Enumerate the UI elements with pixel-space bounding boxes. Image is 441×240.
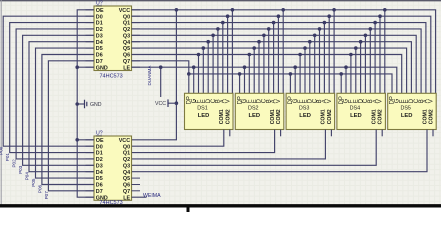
- wire U2 LE (digit latch enable): [132, 196, 147, 198]
- wire segment bus Q3 (to DS5): [132, 35, 417, 93]
- wire DS4 pin3 to bus: [350, 55, 352, 94]
- junction DS3 pin6: [313, 34, 317, 38]
- svg-text:V: V: [327, 99, 333, 103]
- svg-text:Q5: Q5: [123, 176, 130, 182]
- wire DS2 pin5 to bus: [258, 42, 260, 94]
- junction VCC tap: [175, 101, 179, 105]
- wire segment bus Q0 (to DS5): [132, 16, 431, 93]
- junction DS3 DP: [289, 72, 293, 76]
- wire DS1 pin3 to bus: [198, 55, 200, 94]
- svg-text:V: V: [276, 99, 282, 103]
- wire D6 data bus (U1 D6 to U2 D6): [42, 55, 94, 185]
- junction DS1 pin7: [216, 27, 220, 31]
- svg-text:GND: GND: [90, 102, 102, 108]
- DS5 second COM stub: [432, 130, 434, 137]
- wire DS3 pin8 to bus: [323, 23, 325, 94]
- ground symbol bar: [85, 100, 87, 109]
- wire U1 GND stub: [77, 66, 94, 68]
- display DS1 segment pin names: [187, 96, 232, 104]
- svg-text:COM1: COM1: [270, 109, 276, 124]
- junction DS2 pin9: [277, 14, 281, 18]
- wire DS1 pin10 to bus: [231, 10, 233, 94]
- junction DS1 pin6: [211, 34, 215, 38]
- junction GND tap: [75, 102, 79, 106]
- junction DS4 pin3: [349, 53, 353, 57]
- wire VCC symbol stub: [168, 102, 176, 104]
- wire segment bus Q2 (to DS5): [132, 29, 422, 93]
- junction DS2 pin10: [281, 8, 285, 12]
- svg-text:74HC573: 74HC573: [100, 74, 123, 80]
- wire DS3 DP pin: [289, 74, 291, 93]
- svg-text:D7: D7: [96, 189, 103, 195]
- svg-text:COM1: COM1: [422, 109, 428, 124]
- svg-text:Q3: Q3: [123, 163, 130, 169]
- svg-text:COM2: COM2: [276, 109, 282, 124]
- latch U1 pin names: [96, 8, 131, 71]
- wire DS3 pin3 to bus: [299, 55, 301, 94]
- display DS4 segment pin names: [339, 96, 384, 104]
- wire DS1 pin8 to bus: [222, 23, 224, 94]
- wire DS2 pin3 to bus: [248, 55, 250, 94]
- junction DS3 G: [293, 65, 297, 69]
- junction DS4 G: [344, 65, 348, 69]
- junction DS4 pin6: [364, 34, 368, 38]
- svg-text:OE: OE: [96, 8, 104, 14]
- wire D0 data bus (U1 D0 to U2 D0): [3, 16, 94, 146]
- svg-text:D4: D4: [96, 40, 103, 46]
- display DS5 body: [388, 93, 437, 129]
- svg-text:V: V: [378, 99, 384, 103]
- junction DS2 pin3: [248, 53, 252, 57]
- junction DS4 pin9: [378, 14, 382, 18]
- svg-text:D2: D2: [96, 27, 103, 33]
- wire GND symbol stub: [77, 103, 84, 105]
- DS4 second COM stub: [381, 130, 383, 137]
- wire DS3 pin6 to bus: [314, 35, 316, 93]
- svg-text:COM1: COM1: [372, 109, 378, 124]
- svg-text:DS5: DS5: [400, 105, 411, 111]
- wire U2 OE stub: [77, 139, 94, 141]
- svg-text:D2: D2: [96, 157, 103, 163]
- svg-text:VCC: VCC: [155, 101, 166, 107]
- wire DS3 pin9 to bus: [328, 16, 330, 93]
- svg-text:P05: P05: [31, 178, 36, 187]
- junction DS1 G: [192, 65, 196, 69]
- svg-text:Q0: Q0: [123, 144, 130, 150]
- svg-text:COM1: COM1: [219, 109, 225, 124]
- latch U1 body: [94, 6, 132, 71]
- wire segment bus Q7 / DP line: [132, 61, 393, 94]
- svg-text:OE: OE: [96, 138, 104, 144]
- svg-text:LED: LED: [401, 113, 413, 119]
- display DS1 body: [185, 93, 234, 129]
- svg-text:D5: D5: [96, 176, 103, 182]
- junction DP DS1: [187, 72, 191, 76]
- junction DS2 pin6: [262, 34, 266, 38]
- svg-text:D5: D5: [96, 46, 103, 52]
- wire LE net (DUANMA) to displays: [132, 67, 397, 93]
- svg-text:Q1: Q1: [123, 21, 130, 27]
- wire VCC branch (to U2 VCC): [132, 10, 177, 140]
- svg-text:D4: D4: [96, 170, 103, 176]
- svg-text:LED: LED: [248, 113, 260, 119]
- display DS2 body: [235, 93, 283, 129]
- svg-text:DS1: DS1: [197, 105, 208, 111]
- wire VCC rail (to DS5): [132, 10, 436, 94]
- window divider tick: [187, 205, 190, 213]
- wire segment bus Q4 (to DS5): [132, 42, 412, 94]
- svg-text:Q2: Q2: [123, 157, 130, 163]
- svg-text:COM2: COM2: [378, 109, 384, 124]
- wire DS2 pin7 to bus: [268, 29, 270, 93]
- wire DS2 pin G to LE line: [244, 67, 246, 93]
- svg-text:P07: P07: [44, 191, 49, 200]
- latch U2 OE overline: [96, 135, 102, 137]
- svg-text:P06: P06: [37, 184, 42, 193]
- svg-text:V: V: [429, 99, 435, 103]
- wire DS3 COM to U2 Q2: [132, 130, 326, 159]
- wire DS1 COM to U2 Q0: [132, 130, 224, 147]
- svg-text:D6: D6: [96, 183, 103, 189]
- wire DS4 pin5 to bus: [360, 42, 362, 94]
- wire DS4 pin8 to bus: [374, 23, 376, 94]
- wire DS1 DP pin: [188, 74, 190, 93]
- svg-text:COM2: COM2: [327, 109, 333, 124]
- wire D4 data bus (U1 D4 to U2 D4): [29, 42, 94, 172]
- svg-text:COM2: COM2: [429, 109, 435, 124]
- junction DS2 G: [243, 65, 247, 69]
- junction DS2 pin8: [272, 21, 276, 25]
- junction DS2 pin7: [267, 27, 271, 31]
- svg-text:P03: P03: [18, 165, 23, 174]
- wire DS4 pin7 to bus: [369, 29, 371, 93]
- svg-text:VCC: VCC: [119, 138, 130, 144]
- svg-text:Q1: Q1: [123, 151, 130, 157]
- wire DS4 DP pin: [340, 74, 342, 93]
- wire D5 data bus (U1 D5 to U2 D5): [36, 48, 95, 178]
- wire DS3 pin10 to bus: [333, 10, 335, 94]
- svg-text:D1: D1: [96, 151, 103, 157]
- wire DS4 COM to U2 Q3: [132, 130, 377, 166]
- junction DS1 pin8: [221, 21, 225, 25]
- wire DS3 pin4 to bus: [304, 48, 306, 93]
- wire DS2 pin10 to bus: [282, 10, 284, 94]
- svg-text:LED: LED: [299, 113, 311, 119]
- junction VCC branch: [175, 8, 179, 12]
- svg-text:V: V: [225, 99, 231, 103]
- svg-text:LE: LE: [123, 195, 130, 201]
- svg-text:P00: P00: [0, 146, 4, 155]
- junction DS4 pin10: [383, 8, 387, 12]
- DS2 second COM stub: [280, 130, 282, 137]
- display DS5 segment pin names: [390, 96, 435, 104]
- svg-text:WEIMA: WEIMA: [143, 193, 161, 199]
- junction DS3 pin10: [332, 8, 336, 12]
- wire DS4 pin G to LE line: [345, 67, 347, 93]
- svg-text:D3: D3: [96, 33, 103, 39]
- junction DS1 pin10: [231, 8, 235, 12]
- svg-text:LE: LE: [123, 65, 130, 71]
- junction DS2 DP: [238, 72, 242, 76]
- wire DUANMA label branch: [160, 67, 162, 97]
- latch U2 pin stubs: [86, 140, 141, 197]
- svg-text:DS4: DS4: [350, 105, 361, 111]
- junction DS1 pin5: [206, 40, 210, 44]
- window edge background: [0, 207, 441, 212]
- svg-text:Q6: Q6: [123, 183, 130, 189]
- latch U1 OE overline: [96, 5, 102, 7]
- svg-text:D3: D3: [96, 163, 103, 169]
- wire D7 data bus (U1 D7 to U2 D7): [48, 61, 94, 191]
- DS3 second COM stub: [330, 130, 332, 137]
- wire DS4 pin4 to bus: [355, 48, 357, 93]
- svg-text:D1: D1: [96, 21, 103, 27]
- junction DS4 pin5: [359, 40, 363, 44]
- svg-text:D6: D6: [96, 53, 103, 59]
- junction U1 GND tie: [75, 65, 79, 69]
- wire segment bus Q5 (to DS5): [132, 48, 407, 93]
- junction DS3 pin8: [323, 21, 327, 25]
- junction U2 OE tie: [75, 138, 79, 142]
- svg-text:Q0: Q0: [123, 14, 130, 20]
- wire DS3 pin7 to bus: [319, 29, 321, 93]
- junction DS2 pin4: [252, 46, 256, 50]
- junction DS4 pin7: [369, 27, 373, 31]
- wire D1 data bus (U1 D1 to U2 D1): [10, 23, 94, 153]
- svg-text:VCC: VCC: [119, 8, 130, 14]
- svg-text:D0: D0: [96, 144, 103, 150]
- svg-text:P04: P04: [25, 172, 30, 181]
- junction DS3 pin7: [318, 27, 322, 31]
- svg-text:DUANMA: DUANMA: [147, 65, 152, 86]
- svg-text:DS3: DS3: [299, 105, 310, 111]
- DS1 second COM stub: [229, 130, 231, 137]
- svg-text:GND: GND: [96, 65, 108, 71]
- wire DS4 pin6 to bus: [364, 35, 366, 93]
- wire DS2 pin9 to bus: [277, 16, 279, 93]
- svg-text:Q2: Q2: [123, 27, 130, 33]
- wire DS1 pin7 to bus: [217, 29, 219, 93]
- svg-text:LED: LED: [350, 113, 362, 119]
- junction DUANMA branch: [159, 65, 163, 69]
- svg-text:Q6: Q6: [123, 53, 130, 59]
- wire DS3 pin5 to bus: [309, 42, 311, 94]
- wire DS2 COM to U2 Q1: [132, 130, 275, 153]
- power symbol VCC bar: [167, 99, 169, 107]
- junction DS1 pin9: [226, 14, 230, 18]
- junction DS1 pin4: [202, 46, 206, 50]
- wire DS1 pin G to LE line: [193, 67, 195, 93]
- display DS3 body: [286, 93, 335, 129]
- wire DS2 pin4 to bus: [253, 48, 255, 93]
- svg-text:Q3: Q3: [123, 33, 130, 39]
- wire DS1 pin4 to bus: [202, 48, 204, 93]
- wire DS1 pin9 to bus: [227, 16, 229, 93]
- svg-text:P02: P02: [12, 159, 17, 168]
- junction DS4 pin4: [354, 46, 358, 50]
- junction DS4 DP: [339, 72, 343, 76]
- wire D3 data bus (U1 D3 to U2 D3): [23, 35, 94, 165]
- wire DS2 DP pin: [239, 74, 241, 93]
- display DS2 segment pin names: [237, 96, 282, 104]
- latch U2 body: [94, 136, 132, 200]
- svg-text:COM2: COM2: [225, 109, 231, 124]
- svg-text:Q4: Q4: [123, 40, 130, 46]
- junction DS3 pin9: [327, 14, 331, 18]
- wire D2 data bus (U1 D2 to U2 D2): [16, 29, 94, 159]
- wire DS3 pin G to LE line: [294, 67, 296, 93]
- latch U2 pin names: [96, 138, 131, 201]
- display DS4 body: [337, 93, 386, 129]
- svg-text:LED: LED: [198, 113, 210, 119]
- display DS3 segment pin names: [288, 96, 333, 104]
- wire DS4 pin9 to bus: [379, 16, 381, 93]
- wire segment bus Q1 (to DS5): [132, 23, 426, 94]
- wire DS2 pin6 to bus: [263, 35, 265, 93]
- sheet border top: [0, 0, 441, 2]
- svg-text:COM1: COM1: [321, 109, 327, 124]
- wire DS5 COM to U2 Q4: [132, 130, 428, 172]
- wire DS1 pin6 to bus: [212, 35, 214, 93]
- junction DS4 pin8: [373, 21, 377, 25]
- latch U1 pin stubs: [86, 10, 141, 67]
- wire DS4 pin10 to bus: [384, 10, 386, 94]
- junction DS3 pin4: [303, 46, 307, 50]
- junction DS3 pin3: [298, 53, 302, 57]
- wire OE-GND net trunk (U1 OE down to U2 GND): [77, 10, 94, 197]
- sheet border left: [0, 0, 2, 206]
- svg-text:DS2: DS2: [248, 105, 259, 111]
- wire DS1 pin5 to bus: [207, 42, 209, 94]
- junction DS2 pin5: [257, 40, 261, 44]
- svg-text:Q7: Q7: [123, 189, 130, 195]
- junction DS3 pin5: [308, 40, 312, 44]
- svg-text:Q5: Q5: [123, 46, 130, 52]
- junction DS1 pin3: [197, 53, 201, 57]
- wire DS2 pin8 to bus: [273, 23, 275, 94]
- svg-text:P01: P01: [5, 153, 10, 162]
- wire segment bus Q6 (to DS5): [132, 55, 402, 94]
- svg-text:Q4: Q4: [123, 170, 130, 176]
- svg-text:Q7: Q7: [123, 59, 130, 65]
- svg-text:D7: D7: [96, 59, 103, 65]
- window edge thick line: [0, 204, 441, 207]
- svg-text:D0: D0: [96, 14, 103, 20]
